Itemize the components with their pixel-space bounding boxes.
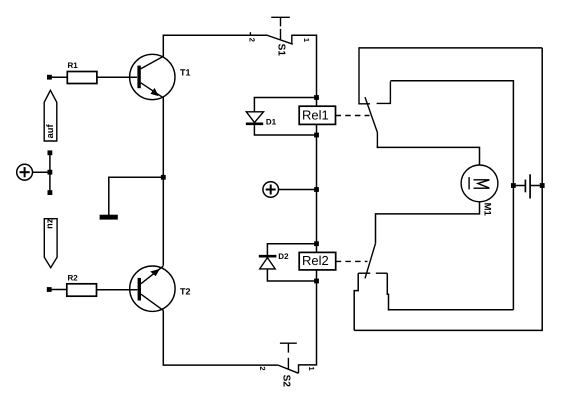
junction D1 top — [314, 95, 319, 100]
diode D1 — [246, 112, 277, 127]
junction battery left — [511, 183, 516, 188]
battery B1 — [513, 174, 542, 198]
wire second rail — [390, 81, 513, 310]
wire R2 to T2 base — [97, 289, 138, 291]
relay contact K2 left throw — [358, 272, 370, 274]
diode D2 — [259, 252, 289, 269]
svg-text:1: 1 — [307, 367, 316, 371]
wire R1 to T1 base — [97, 76, 137, 78]
relay coil Rel2 — [299, 252, 336, 270]
wire S2 pin1 to bus — [299, 364, 317, 366]
relay contact K1 left throw — [359, 47, 370, 104]
ground — [100, 215, 118, 220]
wire K2 right throw down — [387, 273, 388, 310]
wire node B to R2 — [49, 289, 67, 291]
dashed link Rel2 — [336, 260, 368, 262]
dashed link Rel1 — [336, 115, 370, 117]
node top terminal dot — [48, 150, 53, 155]
junction +V bus — [314, 187, 319, 192]
wire motor bottom — [376, 202, 480, 244]
wire right outer vertical — [541, 48, 543, 331]
wire node A to R1 — [49, 76, 67, 78]
svg-text:D2: D2 — [278, 252, 289, 261]
wire S1 pin1 to bus — [292, 34, 317, 36]
wire D1 top branch — [254, 98, 316, 112]
wire D2 bottom branch — [267, 269, 316, 281]
svg-text:2: 2 — [258, 366, 267, 370]
svg-text:T1: T1 — [180, 68, 191, 78]
wire +V middle to bus — [279, 189, 317, 191]
wire T1 emitter down bus — [162, 97, 164, 265]
node B (R2 input terminal dot) — [47, 287, 52, 292]
wire top rail right section — [359, 47, 542, 49]
svg-text:S2: S2 — [280, 375, 291, 388]
junction battery right — [540, 183, 545, 188]
junction D1 bottom — [314, 133, 319, 138]
svg-text:T2: T2 — [180, 287, 191, 297]
switch S1 — [248, 17, 311, 56]
relay contact K1 lever — [365, 97, 377, 148]
transistor T1 — [130, 54, 191, 99]
wire top rail to S1 pin 2 — [163, 34, 268, 36]
svg-text:zu: zu — [46, 219, 56, 230]
junction +V node — [48, 170, 53, 175]
wire D2 top branch — [267, 244, 316, 256]
wire short vertical bus — [49, 153, 51, 193]
power +V middle — [263, 182, 279, 198]
svg-text:R1: R1 — [68, 61, 79, 70]
wire K2 left throw down — [354, 273, 358, 330]
wire D1 bottom branch — [254, 125, 316, 135]
svg-text:auf: auf — [45, 124, 55, 139]
junction D2 top — [314, 241, 319, 246]
node A (R1 input terminal dot) — [47, 75, 52, 80]
junction D2 bottom — [314, 279, 319, 284]
switch S2 — [258, 343, 316, 387]
svg-text:R2: R2 — [68, 273, 79, 282]
resistor R1 — [67, 61, 97, 84]
wire +V to bus — [33, 171, 50, 173]
svg-text:2: 2 — [248, 38, 257, 42]
wire to ground — [109, 177, 164, 215]
relay contact K2 lever — [365, 243, 376, 278]
transistor T2 — [130, 266, 191, 311]
svg-text:S1: S1 — [275, 44, 286, 57]
power +V left — [17, 164, 33, 180]
svg-text:D1: D1 — [266, 118, 277, 127]
relay contact K1 right throw — [377, 82, 391, 104]
svg-text:1: 1 — [302, 38, 311, 42]
motor M1 — [461, 165, 498, 217]
wire T1 collector up — [162, 35, 164, 56]
wire main middle bus — [316, 35, 318, 366]
svg-text:Rel2: Rel2 — [302, 253, 329, 268]
node bottom terminal dot — [48, 190, 53, 195]
resistor R2 — [67, 273, 97, 296]
junction ground node — [161, 175, 166, 180]
flag auf — [44, 90, 57, 141]
svg-text:M1: M1 — [482, 203, 493, 217]
relay coil Rel1 — [299, 106, 335, 124]
flag zu — [44, 219, 57, 268]
wire motor top rail — [377, 147, 480, 165]
wire T2 collector down — [163, 310, 277, 365]
relay contact K2 right throw — [376, 272, 388, 274]
svg-text:Rel1: Rel1 — [302, 107, 329, 122]
wire outer bottom rail — [354, 329, 543, 331]
wire inner bottom rail — [388, 309, 514, 311]
